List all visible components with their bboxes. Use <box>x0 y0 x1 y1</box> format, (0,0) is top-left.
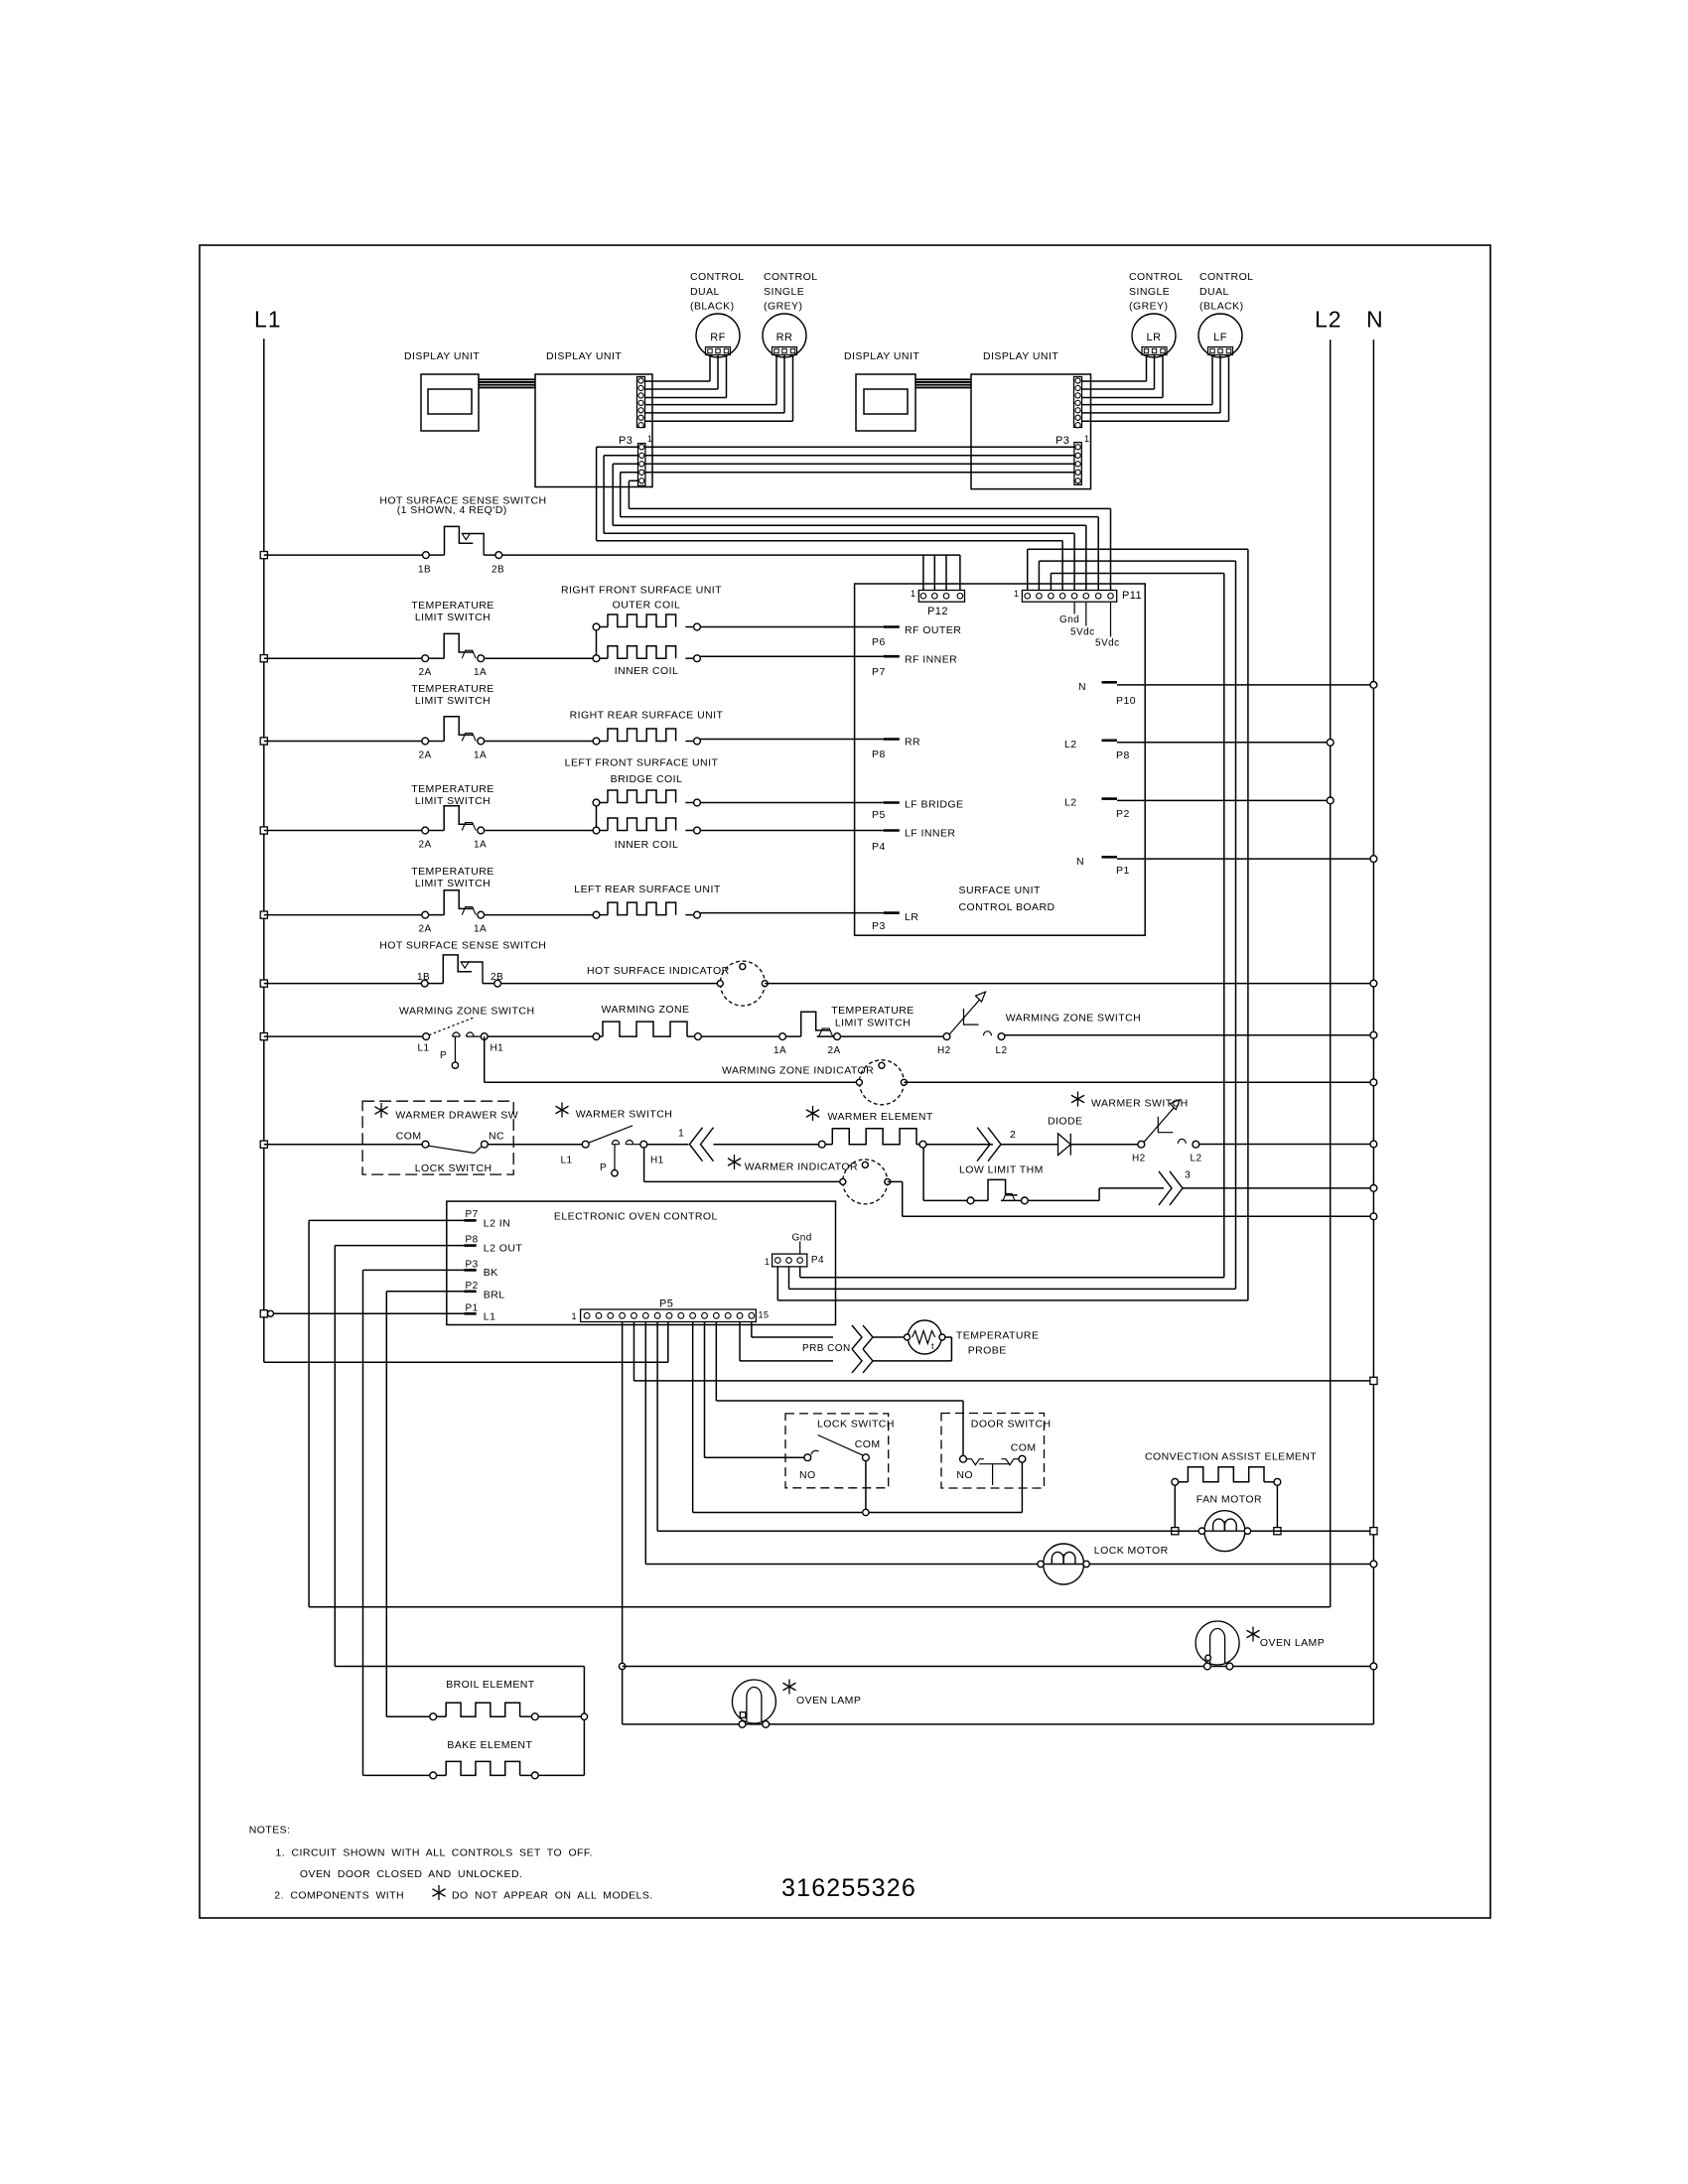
svg-text:L1: L1 <box>254 307 282 333</box>
connector chevron 2 <box>977 1128 990 1161</box>
svg-text:SURFACE UNIT: SURFACE UNIT <box>959 885 1042 896</box>
svg-text:N: N <box>1076 856 1084 868</box>
svg-text:TEMPERATURE: TEMPERATURE <box>411 683 494 695</box>
wire L2 IN run to L2 bus <box>308 1220 310 1606</box>
svg-text:LIMIT SWITCH: LIMIT SWITCH <box>835 1018 911 1029</box>
svg-text:SINGLE: SINGLE <box>764 286 804 298</box>
node RF coil junction vertical <box>596 627 598 659</box>
svg-text:NC: NC <box>489 1131 504 1143</box>
display unit 1 box <box>421 374 479 431</box>
wire L1 to sense switch 2 <box>264 983 422 985</box>
svg-text:L1: L1 <box>561 1156 573 1166</box>
svg-text:P10: P10 <box>1116 695 1136 707</box>
svg-text:(GREY): (GREY) <box>764 301 802 313</box>
svg-text:PRB CON: PRB CON <box>802 1343 851 1354</box>
wire chevron 3 to N bus <box>1183 1187 1373 1189</box>
pin P4 LF INNER <box>884 829 900 832</box>
svg-text:TEMPERATURE: TEMPERATURE <box>411 783 494 795</box>
svg-text:P4: P4 <box>811 1255 824 1266</box>
resistor RR coil <box>593 738 600 745</box>
svg-text:DISPLAY UNIT: DISPLAY UNIT <box>844 350 919 362</box>
wire chevron 1 to warmer element <box>714 1144 819 1146</box>
wire P10 to N bus <box>1117 684 1373 686</box>
wire L2 IN feed <box>309 1219 464 1221</box>
wire diode to H2 <box>1070 1144 1138 1146</box>
pin P3 LR <box>884 911 900 914</box>
svg-text:P3: P3 <box>619 435 633 447</box>
svg-text:LIMIT SWITCH: LIMIT SWITCH <box>415 878 491 889</box>
warmer drawer switch label <box>380 1103 382 1118</box>
connector P3 display unit 4 <box>1074 443 1081 485</box>
svg-text:P12: P12 <box>927 606 948 617</box>
warmer drawer switch box <box>362 1101 513 1174</box>
svg-text:COM: COM <box>855 1438 881 1450</box>
svg-text:TEMPERATURE: TEMPERATURE <box>411 866 494 878</box>
svg-text:CONVECTION ASSIST ELEMENT: CONVECTION ASSIST ELEMENT <box>1145 1451 1317 1463</box>
svg-text:L2: L2 <box>1064 739 1077 751</box>
resistor RF inner coil <box>593 655 600 662</box>
connector P12 <box>918 591 964 603</box>
wire RR coil to P8 <box>700 739 883 741</box>
svg-text:2A: 2A <box>419 751 432 761</box>
electronic oven control box <box>447 1201 836 1324</box>
wire 1A to LR coil <box>485 914 593 916</box>
pin P5 LF BRIDGE <box>884 801 900 804</box>
wire L2 to N bus row I <box>1199 1144 1374 1146</box>
temperature probe <box>908 1320 941 1354</box>
svg-text:L2: L2 <box>996 1045 1008 1056</box>
svg-text:H1: H1 <box>491 1043 504 1054</box>
pin P10 N right side <box>1102 681 1118 684</box>
svg-text:WARMER ELEMENT: WARMER ELEMENT <box>828 1111 933 1123</box>
svg-text:RF OUTER: RF OUTER <box>905 624 961 636</box>
resistor LF inner coil <box>593 827 600 834</box>
wire P5 pin10 to lock door common row <box>692 1322 694 1513</box>
svg-text:RR: RR <box>776 332 793 343</box>
svg-text:WARMER DRAWER SW: WARMER DRAWER SW <box>395 1110 518 1122</box>
svg-text:DUAL: DUAL <box>1199 286 1229 298</box>
svg-text:N: N <box>1078 681 1086 693</box>
wire Gnd stub <box>799 1242 801 1255</box>
svg-text:1A: 1A <box>474 840 487 851</box>
resistor RF outer coil <box>593 623 600 630</box>
wire P5 pin7 to fan motor row <box>656 1322 658 1532</box>
wire LR coil to P3 <box>700 912 883 914</box>
wire RF outer coil to P6 <box>700 626 883 628</box>
svg-text:1: 1 <box>572 1311 577 1321</box>
svg-text:LF BRIDGE: LF BRIDGE <box>905 799 963 811</box>
wire P5 pin4 to oven lamp row <box>622 1322 624 1724</box>
wire pin4 branch to oven lamp 2 row <box>623 1666 1374 1668</box>
temperature limit switch LF row <box>260 827 267 834</box>
svg-text:BAKE ELEMENT: BAKE ELEMENT <box>447 1739 532 1751</box>
svg-text:BRIDGE COIL: BRIDGE COIL <box>611 773 683 785</box>
wire L2 OUT feed <box>335 1245 464 1247</box>
resistor warmer element <box>818 1141 825 1148</box>
svg-text:P5: P5 <box>872 809 886 821</box>
junction L1 to P1 <box>260 1310 267 1317</box>
connector P11 <box>1022 591 1116 603</box>
resistor convection assist element <box>1172 1478 1179 1485</box>
node LF coil junction vertical <box>596 803 598 831</box>
svg-text:2A: 2A <box>828 1045 841 1056</box>
svg-text:P3: P3 <box>466 1259 479 1270</box>
svg-text:TEMPERATURE: TEMPERATURE <box>831 1005 914 1017</box>
wire 1A to LF coils junction <box>485 830 597 832</box>
wires P4 pins to right verticals <box>776 1267 778 1300</box>
wire P5 pin14 to probe return <box>739 1322 741 1361</box>
svg-text:DO NOT APPEAR ON ALL MODELS.: DO NOT APPEAR ON ALL MODELS. <box>452 1889 653 1901</box>
resistor broil element <box>430 1713 437 1720</box>
lamp oven 1 <box>732 1680 775 1723</box>
wire L1 bus bottom elbow to EOC P5 pin8 <box>264 1361 668 1363</box>
svg-text:WARMING ZONE SWITCH: WARMING ZONE SWITCH <box>1006 1013 1141 1024</box>
svg-text:INNER COIL: INNER COIL <box>615 839 679 851</box>
svg-text:HOT SURFACE INDICATOR: HOT SURFACE INDICATOR <box>587 965 730 977</box>
svg-text:CONTROL BOARD: CONTROL BOARD <box>959 901 1055 913</box>
svg-text:1: 1 <box>911 589 915 599</box>
wire BRL feed <box>386 1291 464 1293</box>
svg-text:NO: NO <box>956 1469 973 1481</box>
wire LF bridge coil to P5 <box>700 802 883 804</box>
display unit 4 connector <box>1074 377 1082 428</box>
svg-text:TEMPERATURE: TEMPERATURE <box>411 600 494 612</box>
svg-text:COM: COM <box>396 1131 422 1143</box>
svg-text:COM: COM <box>1011 1442 1037 1454</box>
resistor bake element <box>430 1772 437 1779</box>
svg-text:RIGHT REAR SURFACE UNIT: RIGHT REAR SURFACE UNIT <box>570 709 724 721</box>
door switch box <box>941 1414 1045 1489</box>
low limit thermostat <box>967 1197 974 1204</box>
svg-text:LOCK SWITCH: LOCK SWITCH <box>817 1419 895 1431</box>
wire P5 pin11 to lock switch NO <box>704 1322 706 1458</box>
svg-text:P8: P8 <box>466 1235 479 1246</box>
svg-text:P3: P3 <box>1055 435 1069 447</box>
temperature limit switch RF row <box>260 655 267 662</box>
diode <box>1058 1134 1071 1156</box>
pin P7 RF INNER <box>884 655 900 658</box>
svg-text:P8: P8 <box>1116 750 1130 761</box>
svg-text:INNER COIL: INNER COIL <box>615 665 679 677</box>
connector P3 display unit 2 <box>638 444 645 486</box>
wire lock COM drop to common row <box>865 1461 867 1513</box>
wire chevron to probe <box>872 1336 907 1338</box>
svg-text:OUTER COIL: OUTER COIL <box>613 600 681 612</box>
wire 2B to P12 <box>502 554 960 556</box>
display unit 3 box <box>856 374 915 431</box>
wire P5 pin15 to probe feed <box>751 1322 753 1338</box>
lamp oven 2 <box>1196 1621 1239 1665</box>
wire bake element to rail <box>538 1774 584 1776</box>
wire lock motor row <box>645 1564 1373 1566</box>
svg-text:15: 15 <box>759 1310 770 1320</box>
svg-text:LEFT FRONT SURFACE UNIT: LEFT FRONT SURFACE UNIT <box>565 757 719 769</box>
svg-text:1B: 1B <box>418 565 431 576</box>
svg-text:Gnd: Gnd <box>1059 614 1079 625</box>
wire door COM drop to common row <box>1021 1462 1023 1512</box>
warmer switch 2 H2 L2 <box>1138 1141 1145 1148</box>
svg-text:TEMPERATURE: TEMPERATURE <box>956 1330 1040 1342</box>
svg-text:(BLACK): (BLACK) <box>690 301 735 313</box>
wire warming zone coil to limit switch <box>701 1035 778 1037</box>
svg-text:(1 SHOWN, 4 REQ'D): (1 SHOWN, 4 REQ'D) <box>397 504 507 516</box>
connector chevron 3 <box>1159 1171 1172 1205</box>
pin Gnd stub below P11 pin5 <box>1073 602 1075 614</box>
wire N bus vertical <box>1372 340 1374 1724</box>
junction L1 row I <box>260 1141 267 1148</box>
svg-text:P2: P2 <box>1116 808 1130 820</box>
svg-text:2B: 2B <box>492 565 504 576</box>
pin P8 L2 right side <box>1102 739 1118 742</box>
svg-text:SINGLE: SINGLE <box>1129 286 1170 298</box>
svg-text:DUAL: DUAL <box>690 286 720 298</box>
warmer switch 2 label <box>1077 1092 1079 1107</box>
wire P1 to N bus <box>1117 858 1373 860</box>
wire L1 to P1 <box>274 1312 465 1314</box>
svg-text:CONTROL: CONTROL <box>1199 271 1254 283</box>
svg-text:DIODE: DIODE <box>1048 1116 1083 1128</box>
temperature limit switch RR row <box>260 738 267 745</box>
wires display4 connector to LR LF knobs <box>1082 380 1147 382</box>
node P5 pin4 branch junction <box>619 1663 625 1669</box>
motor lock <box>1044 1544 1084 1584</box>
display unit 4 box <box>971 374 1091 489</box>
svg-text:2. COMPONENTS WITH: 2. COMPONENTS WITH <box>274 1889 404 1901</box>
wire chevron return segment <box>872 1360 951 1362</box>
svg-text:1B: 1B <box>417 972 430 983</box>
wire fan motor row <box>657 1530 1373 1532</box>
svg-text:P3: P3 <box>872 920 886 932</box>
control knob RF <box>696 314 740 357</box>
svg-text:OVEN DOOR CLOSED AND UNLOCKED.: OVEN DOOR CLOSED AND UNLOCKED. <box>300 1868 522 1880</box>
warming zone switch L1 P H1 <box>423 1033 430 1040</box>
connector P5 <box>581 1309 757 1322</box>
wire H1 drop to warmer indicator <box>643 1148 645 1181</box>
motor fan <box>1204 1511 1245 1552</box>
control knob RR <box>763 314 806 357</box>
svg-text:LIMIT SWITCH: LIMIT SWITCH <box>415 612 491 623</box>
svg-text:L1: L1 <box>484 1311 496 1323</box>
svg-text:1A: 1A <box>474 751 487 761</box>
svg-text:2A: 2A <box>419 840 432 851</box>
svg-text:WARMER INDICATOR: WARMER INDICATOR <box>745 1161 858 1173</box>
svg-text:1: 1 <box>765 1257 770 1267</box>
svg-text:WARMING ZONE SWITCH: WARMING ZONE SWITCH <box>399 1006 534 1018</box>
svg-text:CONTROL: CONTROL <box>690 271 745 283</box>
svg-text:OVEN LAMP: OVEN LAMP <box>1260 1637 1325 1649</box>
svg-text:P4: P4 <box>872 841 886 853</box>
pin P6 RF OUTER <box>884 625 900 628</box>
svg-text:H2: H2 <box>1132 1154 1146 1164</box>
svg-text:CONTROL: CONTROL <box>764 271 818 283</box>
svg-text:N: N <box>1366 307 1384 333</box>
wire P8 to L2 bus <box>1117 742 1331 744</box>
svg-text:LF INNER: LF INNER <box>905 828 955 840</box>
wire chevron 2 to diode <box>1001 1144 1058 1146</box>
wire BK feed <box>363 1269 465 1271</box>
svg-text:P: P <box>600 1162 607 1173</box>
svg-text:BK: BK <box>484 1267 498 1279</box>
svg-text:1A: 1A <box>774 1045 786 1056</box>
junction convection left <box>1172 1528 1179 1535</box>
svg-text:1: 1 <box>1084 434 1089 444</box>
wires convection element to fan row <box>1174 1485 1176 1531</box>
temperature limit switch warming zone <box>779 1033 786 1040</box>
display unit 2 connector <box>637 377 645 428</box>
pin 5Vdc stub below P11 pin8 <box>1110 602 1112 636</box>
svg-text:L1: L1 <box>418 1043 430 1054</box>
svg-text:WARMING ZONE: WARMING ZONE <box>601 1004 689 1016</box>
warmer drawer lock switch contacts <box>422 1141 429 1148</box>
display unit 2 box <box>535 374 652 487</box>
wire element right rail <box>583 1667 585 1776</box>
junction L1 row G <box>260 1033 267 1040</box>
svg-text:1A: 1A <box>474 667 487 678</box>
svg-text:WARMING ZONE INDICATOR: WARMING ZONE INDICATOR <box>722 1065 874 1077</box>
svg-text:P: P <box>440 1050 447 1061</box>
wire BRL run to broil element <box>385 1292 387 1716</box>
svg-text:ELECTRONIC OVEN CONTROL: ELECTRONIC OVEN CONTROL <box>554 1210 718 1222</box>
surface unit control board box <box>855 584 1146 935</box>
svg-text:BRL: BRL <box>484 1290 505 1301</box>
svg-text:BROIL ELEMENT: BROIL ELEMENT <box>446 1679 535 1691</box>
svg-text:2: 2 <box>1010 1129 1016 1141</box>
junction oven lamp 2 row N bus <box>1370 1663 1377 1670</box>
pin P2 L2 right side <box>1102 797 1118 800</box>
wire L1 to warming zone switch <box>264 1035 423 1037</box>
temperature limit switch LR row <box>260 911 267 918</box>
svg-text:P11: P11 <box>1122 590 1142 602</box>
wire L1 to sense switch <box>264 554 423 556</box>
page border frame <box>200 245 1490 1918</box>
svg-text:DISPLAY UNIT: DISPLAY UNIT <box>404 350 480 362</box>
svg-text:P2: P2 <box>466 1281 479 1292</box>
connector chevron probe return <box>852 1349 862 1373</box>
lamp hot surface indicator <box>720 961 765 1006</box>
wire NC to warmer switch L1 <box>488 1144 582 1146</box>
resistor warming zone coil <box>593 1033 600 1040</box>
svg-text:H2: H2 <box>937 1045 951 1056</box>
svg-text:(BLACK): (BLACK) <box>1199 301 1244 313</box>
control knob LR <box>1132 314 1176 357</box>
wires display2 connector to RF RR knobs <box>645 380 711 382</box>
resistor LR coil <box>593 911 600 918</box>
svg-text:P7: P7 <box>872 666 886 678</box>
pin P1 N right side <box>1102 856 1118 859</box>
junction fan row N bus <box>1370 1528 1377 1535</box>
svg-text:5Vdc: 5Vdc <box>1070 627 1095 638</box>
wire 1A to RF coils junction <box>485 657 597 659</box>
wire 1A to RR coil <box>485 741 593 743</box>
wire H1 to chevron 1 <box>647 1144 689 1146</box>
wire H1 to warming zone coil <box>488 1035 593 1037</box>
wire oven lamp 1 row <box>623 1723 1374 1725</box>
svg-text:H1: H1 <box>650 1156 664 1166</box>
wire 2A to H2 <box>841 1035 944 1037</box>
wire to warming zone indicator <box>485 1081 860 1083</box>
svg-text:NO: NO <box>799 1469 816 1481</box>
oven lamp 2 label <box>1252 1627 1254 1642</box>
wire warming zone indicator to N bus <box>904 1081 1373 1083</box>
svg-text:DISPLAY UNIT: DISPLAY UNIT <box>546 350 622 362</box>
warmer switch label <box>561 1103 563 1118</box>
warmer indicator label <box>734 1155 736 1169</box>
svg-text:OVEN LAMP: OVEN LAMP <box>796 1695 861 1706</box>
warming zone switch H2 L2 <box>943 1033 950 1040</box>
svg-text:RF: RF <box>710 332 726 343</box>
svg-text:LIMIT SWITCH: LIMIT SWITCH <box>415 795 491 807</box>
svg-text:LF: LF <box>1213 332 1227 343</box>
wire BK run to bake element <box>362 1270 364 1775</box>
svg-text:L2: L2 <box>1191 1154 1202 1164</box>
svg-text:5Vdc: 5Vdc <box>1095 638 1120 649</box>
pin P8 RR <box>884 738 900 741</box>
svg-text:FAN MOTOR: FAN MOTOR <box>1196 1494 1262 1506</box>
wire 2B to indicator <box>501 983 721 985</box>
wire L1 to warmer drawer switch COM <box>264 1144 422 1146</box>
wire H1 drop to indicator row <box>484 1036 486 1082</box>
ribbon cable display1-display2 <box>479 378 535 380</box>
wire L2 bus vertical <box>1330 340 1332 1607</box>
node warmer element output junction <box>919 1141 926 1148</box>
svg-text:P7: P7 <box>466 1209 479 1220</box>
wire L2 to N bus row G <box>1005 1034 1374 1036</box>
wire warmer element junction to low limit <box>922 1148 924 1200</box>
warmer switch L1 P H1 <box>582 1141 589 1148</box>
svg-text:Gnd: Gnd <box>792 1233 812 1244</box>
svg-text:2B: 2B <box>491 972 503 983</box>
wire low limit to chevron 3 <box>1028 1199 1099 1201</box>
svg-text:316255326: 316255326 <box>781 1874 916 1902</box>
svg-text:RIGHT FRONT SURFACE UNIT: RIGHT FRONT SURFACE UNIT <box>561 585 722 597</box>
junction lock row N bus <box>1370 1561 1377 1568</box>
svg-text:P1: P1 <box>466 1303 479 1314</box>
junction convection right <box>1274 1528 1281 1535</box>
door switch contacts <box>960 1455 967 1462</box>
svg-text:LIMIT SWITCH: LIMIT SWITCH <box>415 695 491 707</box>
lock switch contacts <box>804 1454 811 1461</box>
wire P5 pin5 down-right to N bus <box>633 1322 634 1381</box>
node lock COM junction <box>863 1509 869 1515</box>
wire RF inner coil to P7 <box>700 655 883 657</box>
wire warmer indicator to N bus low row <box>888 1180 903 1182</box>
node broil rail junction <box>581 1713 587 1719</box>
wire LF inner coil to P4 <box>700 830 883 832</box>
warmer element label <box>812 1106 814 1121</box>
lock switch box <box>785 1414 889 1488</box>
svg-text:LR: LR <box>1147 332 1162 343</box>
hot surface sense switch <box>423 552 430 559</box>
junction L1 row A <box>260 552 267 559</box>
svg-text:NOTES:: NOTES: <box>249 1825 291 1837</box>
wires P12 pins to hot surface sense line <box>922 555 924 590</box>
hot surface sense switch 2 <box>421 980 428 987</box>
lamp warmer indicator <box>843 1160 888 1204</box>
svg-text:LOCK MOTOR: LOCK MOTOR <box>1094 1545 1169 1557</box>
svg-text:LOCK SWITCH: LOCK SWITCH <box>415 1162 492 1174</box>
svg-text:1: 1 <box>647 434 652 444</box>
ribbon cable display3-display4 <box>915 378 971 380</box>
svg-text:RF INNER: RF INNER <box>905 654 957 666</box>
svg-text:L2 IN: L2 IN <box>484 1218 510 1230</box>
svg-text:LR: LR <box>905 911 918 923</box>
svg-text:P5: P5 <box>659 1298 673 1310</box>
svg-text:CONTROL: CONTROL <box>1129 271 1184 283</box>
svg-text:WARMER SWITCH: WARMER SWITCH <box>576 1109 673 1121</box>
junction L1 row F <box>260 980 267 987</box>
svg-text:RR: RR <box>905 737 920 749</box>
svg-text:LEFT REAR SURFACE UNIT: LEFT REAR SURFACE UNIT <box>574 884 721 895</box>
